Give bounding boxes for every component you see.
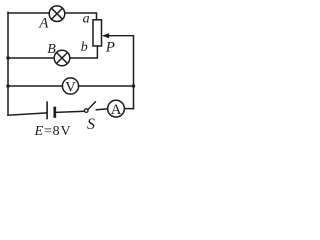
wire switch to ammeter xyxy=(96,109,107,110)
svg-text:S: S xyxy=(87,116,95,133)
wire voltmeter branch xyxy=(8,85,134,87)
lamp A xyxy=(49,6,65,22)
junction dot node right-V xyxy=(132,84,135,87)
wire right (slider rail down to ammeter) xyxy=(133,36,135,109)
wire ammeter to right rail xyxy=(124,108,133,110)
svg-text:B: B xyxy=(47,42,56,57)
svg-text:A: A xyxy=(38,15,49,31)
switch S xyxy=(84,102,95,113)
voltmeter U-V xyxy=(62,78,78,96)
svg-text:V: V xyxy=(65,80,76,96)
wire left (main left rail) xyxy=(7,12,9,115)
ammeter U-A xyxy=(108,100,125,118)
wire top (battery+ loop to rheostat top, node a feed) xyxy=(8,13,97,20)
svg-text:b: b xyxy=(81,40,88,55)
rheostat (slide resistor body) xyxy=(93,20,102,46)
wire lamp B branch xyxy=(8,46,97,58)
wire bottom (battery loop) xyxy=(8,113,46,115)
wire battery to switch xyxy=(56,111,84,112)
svg-text:E=8V: E=8V xyxy=(34,124,72,138)
svg-text:A: A xyxy=(111,102,122,118)
battery E (cell) xyxy=(47,102,55,118)
svg-text:P: P xyxy=(105,39,115,55)
junction dot node left-B xyxy=(6,56,9,59)
slider arrow of rheostat xyxy=(102,33,134,38)
lamp B xyxy=(54,50,70,66)
svg-text:a: a xyxy=(83,11,90,26)
junction dot node left-V xyxy=(6,84,9,87)
